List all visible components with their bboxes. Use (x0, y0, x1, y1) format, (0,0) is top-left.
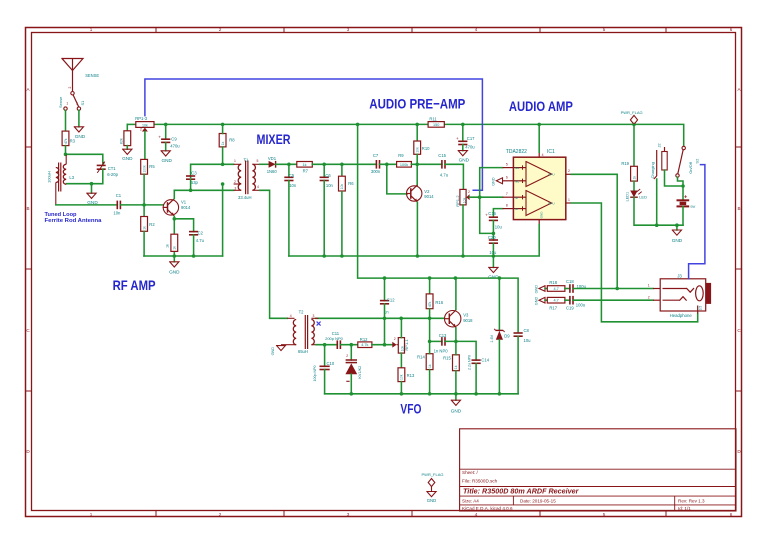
capacitor C2 (189, 231, 198, 233)
svg-text:Sense: Sense (58, 96, 63, 108)
junction (492, 232, 496, 236)
wire (665, 170, 684, 186)
wire (V1 collector line to T1 pin 3) (174, 189, 233, 191)
svg-text:R17: R17 (549, 306, 557, 311)
wire (emitter V2) (416, 202, 418, 256)
junction (173, 254, 177, 258)
svg-text:3: 3 (347, 27, 350, 32)
svg-text:2: 2 (568, 169, 570, 173)
svg-text:10k: 10k (416, 147, 420, 153)
svg-text:C18: C18 (566, 279, 574, 284)
wire (56, 204, 118, 206)
ground (battery) (676, 225, 678, 230)
svg-text:7: 7 (506, 192, 508, 196)
svg-text:R16: R16 (435, 300, 443, 305)
connector J1 headphone jack (660, 279, 706, 311)
ground (87, 193, 96, 198)
wire (341, 192, 343, 256)
svg-text:GND: GND (427, 498, 437, 503)
resistor R17 (547, 297, 565, 303)
svg-text:10k: 10k (462, 197, 466, 203)
svg-text:100uH: 100uH (47, 171, 52, 183)
wire (T1 pin2 to gnd rail) (222, 184, 224, 256)
wire (91, 184, 93, 194)
potentiometer RP1-2 (460, 189, 466, 205)
svg-text:IC1: IC1 (547, 149, 555, 155)
svg-text:D9: D9 (504, 334, 510, 339)
svg-text:Charging: Charging (650, 162, 655, 178)
svg-text:C16: C16 (488, 211, 496, 216)
svg-text:NI: NI (515, 196, 518, 200)
ground (427, 492, 436, 497)
wire (detector line) (276, 163, 297, 165)
wire (66, 169, 102, 184)
svg-text:200p NP0: 200p NP0 (325, 336, 344, 341)
battery B1 (682, 186, 684, 200)
junction (492, 254, 496, 258)
svg-text:R10: R10 (422, 146, 430, 151)
wire (blue net) (145, 79, 483, 190)
svg-text:1k: 1k (221, 141, 225, 145)
junction (415, 163, 419, 167)
svg-text:S1: S1 (80, 100, 85, 106)
svg-text:+: + (158, 134, 161, 139)
svg-text:2: 2 (219, 512, 222, 517)
resistor R18 (547, 286, 565, 292)
wire (312, 163, 376, 165)
wire (384, 304, 386, 319)
wire (RF gnd rail) (144, 255, 223, 257)
svg-text:R18: R18 (549, 280, 557, 285)
svg-text:470u: 470u (465, 144, 475, 149)
svg-text:2: 2 (468, 190, 470, 194)
junction (221, 123, 225, 127)
capacitor C19 (569, 296, 571, 305)
wire (455, 341, 457, 354)
ground (row1) (539, 286, 545, 292)
resistor R2 (141, 217, 148, 232)
svg-text:300n: 300n (371, 169, 381, 174)
wire (380, 163, 397, 165)
wire (445, 164, 463, 189)
capacitor C5 (284, 176, 293, 178)
svg-text:GND: GND (75, 134, 86, 139)
wire (emitter V1) (173, 216, 175, 256)
svg-text:PWR_FLAG: PWR_FLAG (422, 472, 444, 477)
svg-text:Date: 2019-05-15: Date: 2019-05-15 (520, 499, 556, 504)
wire (collector V3) (455, 278, 457, 309)
svg-text:4.7: 4.7 (553, 299, 558, 303)
svg-text:R6: R6 (348, 181, 354, 186)
svg-text:GND: GND (451, 409, 462, 414)
junction (356, 123, 360, 127)
resistor R16 (426, 294, 433, 309)
svg-text:1k: 1k (142, 226, 146, 230)
svg-text:GND: GND (169, 269, 180, 274)
junction (385, 163, 389, 167)
ground (audio rail) (492, 256, 494, 267)
svg-text:53p: 53p (191, 180, 199, 185)
wire (565, 299, 570, 301)
resistor R7 (297, 162, 313, 168)
junction (322, 163, 326, 167)
junction (461, 123, 465, 127)
junction (287, 163, 291, 167)
wire (429, 370, 431, 394)
wire (288, 164, 290, 177)
wire (wiper to R5) (144, 132, 146, 160)
svg-text:TDA2822: TDA2822 (506, 149, 527, 155)
svg-text:Title: R3500D 80m ARDF Receive: Title: R3500D 80m ARDF Receiver (463, 487, 580, 496)
svg-text:S2: S2 (695, 158, 700, 164)
wire (165, 142, 167, 150)
svg-text:GND: GND (271, 347, 275, 356)
wire (222, 147, 224, 164)
wire (565, 288, 570, 290)
svg-text:C14: C14 (481, 357, 489, 362)
capacitor C14 (472, 359, 481, 361)
wire (T1 pin4 to T2) (260, 190, 288, 318)
wire (340, 344, 357, 346)
svg-text:KiCad E.D.A. kicad 4.0.6: KiCad E.D.A. kicad 4.0.6 (462, 506, 513, 511)
wire (126, 146, 128, 150)
svg-text:5: 5 (603, 27, 606, 32)
wire (R10 to rail) (416, 124, 418, 141)
capacitor C20 (489, 239, 498, 241)
wire (462, 205, 464, 256)
svg-text:Headphone: Headphone (670, 313, 693, 318)
resistor R5 (141, 159, 148, 174)
junction (498, 276, 502, 280)
capacitor C6 (320, 176, 329, 178)
svg-text:+: + (456, 136, 459, 141)
svg-text:5: 5 (506, 162, 508, 166)
wire (462, 124, 464, 141)
svg-text:PWR_FLAG: PWR_FLAG (621, 110, 643, 115)
svg-text:C13: C13 (439, 333, 447, 338)
svg-text:2: 2 (234, 180, 236, 184)
wire (OUT1 to phones) (571, 203, 697, 322)
svg-text:4.7: 4.7 (553, 287, 558, 291)
wire (411, 163, 442, 165)
wire (143, 174, 145, 216)
wire (wiper to pin7) (470, 196, 503, 198)
svg-text:10u: 10u (524, 338, 532, 343)
wire (323, 164, 325, 177)
junction (454, 340, 458, 344)
wire (143, 231, 145, 256)
svg-text:Ferrite Rod Antenna: Ferrite Rod Antenna (45, 218, 103, 224)
svg-text:4: 4 (257, 185, 259, 189)
wire (678, 177, 684, 186)
capacitor C10 (320, 365, 330, 367)
svg-text:10k: 10k (400, 374, 404, 380)
svg-text:10n: 10n (113, 210, 121, 215)
wire (78, 110, 80, 126)
wire (445, 341, 476, 360)
wire (C12 node down) (384, 318, 386, 344)
capacitor C17 (458, 140, 467, 142)
svg-text:R2: R2 (149, 222, 155, 227)
svg-text:10n: 10n (289, 183, 297, 188)
junction (428, 276, 432, 280)
transistor V3 (445, 311, 461, 327)
transformer T2 (293, 320, 296, 345)
svg-text:R9: R9 (398, 153, 404, 158)
junction (340, 254, 344, 258)
switch S2 On/Off (682, 146, 685, 149)
ground (161, 151, 170, 156)
capacitor C9 (161, 138, 170, 140)
wire (429, 341, 431, 353)
svg-text:C5: C5 (289, 173, 295, 178)
svg-text:1k: 1k (165, 244, 169, 248)
junction (221, 163, 225, 167)
wire (400, 382, 402, 394)
ground (row2) (539, 297, 545, 303)
wire (165, 124, 167, 139)
ground (T2) (281, 344, 290, 346)
wire (120, 204, 163, 206)
svg-text:GND: GND (672, 238, 683, 243)
wire (VFO feed from rail) (358, 124, 518, 331)
svg-text:470u: 470u (170, 144, 180, 149)
svg-text:2: 2 (394, 337, 396, 341)
svg-text:1: 1 (66, 102, 68, 106)
svg-text:100k: 100k (400, 163, 408, 167)
resistor R13 (398, 368, 405, 382)
wire (455, 371, 457, 394)
wire (T2 to C11) (316, 344, 337, 346)
svg-text:9018: 9018 (463, 318, 473, 323)
wire (656, 179, 658, 225)
svg-text:1k: 1k (303, 163, 307, 167)
resistor R15 (453, 355, 460, 371)
wire (66, 154, 103, 165)
resistor R12 (358, 342, 372, 348)
wire (573, 299, 653, 301)
svg-text:C8: C8 (524, 328, 530, 333)
junction (632, 123, 636, 127)
svg-text:10u: 10u (495, 225, 503, 230)
wire (350, 374, 352, 394)
svg-text:R3: R3 (70, 139, 76, 144)
svg-text:C6: C6 (325, 173, 331, 178)
svg-text:KV1/K2: KV1/K2 (358, 366, 362, 379)
resistor R9 (397, 162, 412, 168)
svg-text:C17: C17 (467, 136, 475, 141)
svg-text:R15: R15 (443, 355, 451, 360)
capacitor C11 (336, 340, 338, 349)
transformer T1 (238, 164, 241, 190)
svg-text:VD1: VD1 (268, 156, 277, 161)
svg-text:1: 1 (568, 198, 570, 202)
svg-text:RP1-3: RP1-3 (135, 116, 148, 121)
svg-text:On/Off: On/Off (688, 161, 693, 174)
svg-text:R7: R7 (303, 168, 309, 173)
svg-text:Size: A4: Size: A4 (462, 499, 479, 504)
svg-text:NI: NI (515, 207, 518, 211)
svg-text:C20: C20 (488, 235, 496, 240)
junction (350, 343, 354, 347)
ground (672, 230, 681, 235)
capacitor C10 (324, 345, 326, 367)
svg-text:10n: 10n (326, 183, 334, 188)
wire (498, 340, 500, 394)
capacitor C15 (441, 160, 443, 169)
wire (65, 110, 67, 131)
junction (322, 254, 326, 258)
svg-text:R8: R8 (229, 138, 235, 143)
svg-text:100u: 100u (576, 303, 586, 308)
svg-text:GND: GND (534, 285, 538, 294)
wire (65, 146, 67, 155)
svg-text:C1: C1 (116, 193, 122, 198)
svg-text:C3: C3 (191, 171, 197, 176)
svg-text:5: 5 (603, 512, 606, 517)
svg-text:L3: L3 (69, 175, 74, 180)
svg-text:9V: 9V (690, 204, 695, 209)
svg-text:6: 6 (506, 176, 508, 180)
svg-text:VFO: VFO (400, 400, 421, 416)
svg-text:File: R3500D.sch: File: R3500D.sch (462, 479, 498, 484)
trimmer capacitor CT1 (97, 164, 106, 166)
svg-text:2: 2 (346, 354, 348, 358)
svg-text:R14: R14 (417, 354, 425, 359)
resistor R4 (171, 234, 178, 251)
svg-text:GND: GND (122, 156, 133, 161)
svg-text:SENSE: SENSE (85, 73, 99, 78)
wire (193, 235, 195, 256)
svg-text:10k: 10k (142, 123, 148, 127)
svg-text:R19: R19 (621, 161, 629, 166)
potentiometer RP1-1 (tuning) (398, 338, 404, 354)
svg-text:3: 3 (234, 187, 236, 191)
svg-text:J3: J3 (677, 274, 682, 279)
resistor R14 (426, 354, 433, 370)
svg-text:2: 2 (648, 295, 650, 299)
wire (492, 243, 494, 256)
inductor L3 (ferrite rod) (63, 164, 66, 184)
svg-text:Rev: Rev 1.3: Rev: Rev 1.3 (678, 499, 705, 504)
svg-text:C15: C15 (438, 153, 446, 158)
wire (492, 220, 494, 240)
svg-text:3.5: 3.5 (699, 306, 703, 311)
junction (478, 195, 482, 199)
wire (blue net) (689, 165, 705, 279)
svg-text:9014: 9014 (424, 194, 434, 199)
svg-text:1: 1 (90, 27, 93, 32)
wire (400, 353, 402, 368)
svg-text:GND: GND (492, 177, 496, 186)
junction (221, 182, 225, 186)
ground (pin6) (496, 178, 502, 184)
svg-text:1n NP0: 1n NP0 (434, 348, 449, 353)
svg-text:R12: R12 (360, 337, 368, 342)
junction (615, 287, 619, 291)
wire (475, 363, 477, 394)
ground (489, 267, 498, 272)
wire (191, 164, 234, 177)
svg-text:OPU: OPU (548, 201, 555, 205)
svg-text:6: 6 (730, 512, 733, 517)
svg-text:OPU: OPU (548, 173, 555, 177)
resistor R11 (428, 122, 444, 128)
capacitor C8 (514, 332, 523, 334)
capacitor C1 (116, 201, 118, 210)
svg-text:33.4uH: 33.4uH (238, 195, 252, 200)
svg-text:C7: C7 (373, 153, 379, 158)
antenna ANT1 (62, 59, 83, 71)
ground (123, 149, 132, 154)
svg-text:1: 1 (648, 284, 650, 288)
svg-text:V2: V2 (424, 189, 430, 194)
svg-text:AUDIO PRE−AMP: AUDIO PRE−AMP (369, 96, 465, 112)
junction (681, 184, 685, 188)
svg-text:R11: R11 (429, 116, 437, 121)
svg-text:LED1: LED1 (625, 192, 629, 202)
junction (416, 254, 420, 258)
svg-text:V3: V3 (463, 312, 469, 317)
svg-text:6: 6 (730, 27, 733, 32)
resistor R8 (219, 134, 226, 147)
no-connect (317, 322, 321, 326)
junction (428, 317, 432, 321)
wire (416, 154, 418, 164)
svg-text:3: 3 (312, 314, 314, 318)
junction (454, 276, 458, 280)
wire (R16 drop) (429, 278, 431, 294)
svg-text:Id: 1/1: Id: 1/1 (678, 506, 691, 511)
svg-text:MIXER: MIXER (257, 131, 291, 147)
wire (341, 164, 343, 177)
junction (192, 254, 196, 258)
junction (400, 392, 404, 396)
svg-text:5: 5 (257, 159, 259, 163)
svg-text:T1: T1 (244, 158, 250, 163)
svg-text:RP1-2: RP1-2 (455, 195, 460, 207)
junction (323, 343, 327, 347)
capacitor C16 (489, 216, 498, 218)
potentiometer RP1-3 (136, 122, 154, 128)
svg-text:1k: 1k (632, 176, 636, 180)
svg-text:65uH: 65uH (298, 349, 308, 354)
wire (545, 299, 547, 301)
svg-text:100k: 100k (142, 165, 146, 173)
wire (372, 344, 392, 346)
wire (VFO ground rail) (325, 393, 518, 395)
junction (461, 254, 465, 258)
capacitor C7 (375, 160, 377, 169)
junction (340, 163, 344, 167)
wire (545, 288, 547, 290)
svg-text:3: 3 (347, 512, 350, 517)
wire (emitter V3) (455, 328, 457, 342)
svg-text:GND: GND (534, 297, 538, 306)
wire (288, 181, 290, 257)
svg-text:1k: 1k (428, 364, 432, 368)
transistor V2 (407, 186, 422, 201)
junction (399, 317, 403, 321)
transistor V1 (163, 200, 178, 215)
svg-text:1: 1 (90, 512, 93, 517)
svg-text:2: 2 (140, 128, 142, 132)
wire (V+ rail left) (127, 123, 136, 125)
switch S1 (71, 92, 74, 95)
wire (collector V1) (173, 190, 175, 198)
svg-text:3: 3 (76, 102, 78, 106)
junction (383, 317, 387, 321)
